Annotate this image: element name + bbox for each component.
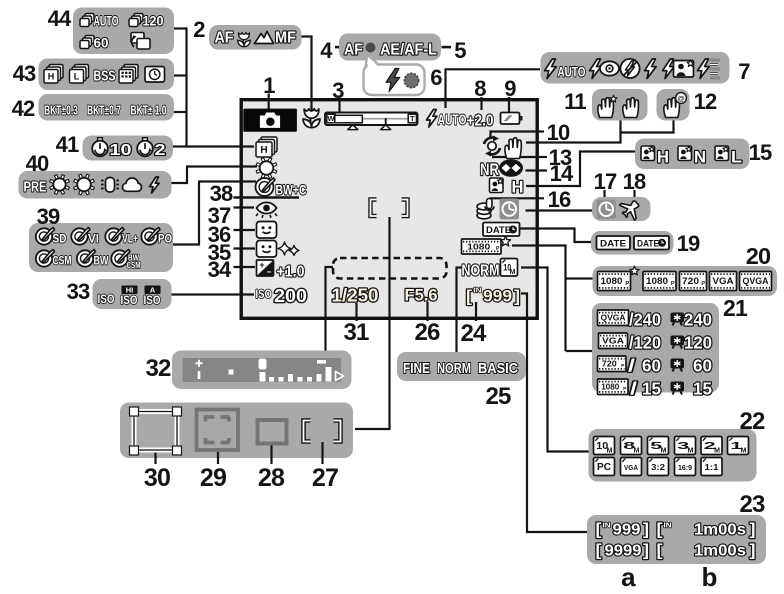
bubble 15 adl levels [635,139,750,170]
svg-text:H: H [260,145,267,156]
svg-text:AE/AF-L: AE/AF-L [380,42,437,59]
icon 7 slow sync [663,59,694,79]
icon 20 1080s [598,266,640,290]
icon 32 minus [317,360,326,364]
svg-text:IN: IN [603,521,611,530]
blink proof indicator [257,222,277,239]
img quality indicator [462,263,500,280]
svg-text:720: 720 [602,360,618,369]
svg-text:QVGA: QVGA [743,276,769,286]
voice memo indicator [477,199,494,219]
svg-text:]: ] [514,288,520,306]
smile timer indicator [257,241,300,258]
bubble 25 image quality [397,352,526,381]
label 24 [460,320,487,347]
mode box [243,109,297,132]
wire 11 [526,120,621,143]
label 17 [594,169,617,194]
svg-text:MF: MF [275,30,296,47]
icon 44 interval [131,33,150,50]
svg-text:1080: 1080 [601,276,623,286]
svg-text:[: [ [596,520,602,539]
svg-text:H: H [512,178,524,197]
svg-text:39: 39 [37,204,60,229]
svg-text:2: 2 [193,17,205,42]
icon 20 QVGA [740,272,772,291]
icon 43 multishot16 [119,65,138,84]
flash indicator [427,110,494,130]
svg-text:F5.6: F5.6 [405,286,438,305]
label 3 [332,78,344,103]
bubble 17-18 [592,197,651,221]
svg-text:L: L [731,148,742,167]
row 21 qvga240 [598,310,713,330]
svg-text:27: 27 [312,464,338,492]
wire 32 [326,267,334,351]
label 36 [208,222,231,247]
svg-text:BSS: BSS [94,69,116,85]
icon 20 720 [680,272,707,291]
icon 43 cont H [44,65,63,84]
svg-text:31: 31 [343,319,369,346]
svg-text:]: ] [750,541,756,560]
svg-text:ISO: ISO [121,293,138,307]
icon 43 BSS [94,69,116,85]
wire 17 [603,190,605,198]
svg-text:a: a [621,562,636,592]
stem 29 [217,450,219,464]
label 37 [208,203,231,228]
icon 15 N [678,146,706,167]
label 9 [504,76,516,101]
label 7 [738,59,750,84]
svg-text:11: 11 [564,89,586,114]
wire 33 [172,293,255,295]
icon 2 macro [238,33,250,47]
svg-text:720: 720 [682,276,699,286]
svg-text:BW+C: BW+C [276,182,307,198]
wire 9 [508,97,510,112]
bubble 39 picture controls [29,223,173,272]
svg-text:999: 999 [613,522,641,539]
icon 12 hand-auto [664,93,687,118]
svg-text:7: 7 [738,59,750,84]
picture ctrl indicator [256,178,307,198]
svg-text:]: ] [643,541,649,560]
svg-text:VGA: VGA [624,463,638,472]
label 11 [564,89,586,114]
svg-text:L: L [74,71,80,81]
svg-text:16:9: 16:9 [678,463,692,472]
label 32 [145,355,171,382]
icon 2 MF [275,30,296,47]
icon 7 fill [645,59,657,79]
icon 7 rear [698,59,721,79]
wire 39 [173,182,256,245]
svg-text:ISO: ISO [98,292,115,306]
svg-text:1/250: 1/250 [332,286,379,306]
svg-text:2: 2 [155,142,166,159]
movie option indicator [462,236,511,254]
wire 22 [521,268,589,452]
wire 12 [621,120,674,133]
exposure comp indicator [257,260,305,281]
icon 41 timer2 [137,138,165,159]
label 1 [263,73,275,98]
img size indicator [501,259,518,277]
label 20 [746,243,771,269]
svg-text:PO: PO [158,234,172,246]
label b [701,562,716,592]
label 22 [739,408,765,435]
svg-text:b: b [701,562,716,592]
svg-text:18: 18 [623,169,646,194]
svg-text:15: 15 [749,140,772,165]
svg-text:IN: IN [474,286,482,295]
svg-text:60: 60 [642,356,661,376]
svg-text:/: / [630,379,637,399]
icon 18 airplane [617,195,644,222]
icon 28 center frame [258,420,287,444]
icon 15 H [641,146,669,167]
text 42 bkt07 [87,103,121,118]
bubble 44 shooting menu frames [73,8,174,55]
icon 32 dot [229,370,234,375]
wire 34 [234,266,256,268]
wire 8 [480,97,482,110]
wire 20-21 [512,246,593,352]
row 23 a2 [596,541,650,560]
wire 13 [492,156,547,158]
wire 23 [521,294,587,533]
bubble 22 image sizes [589,429,757,482]
battery indicator [501,113,523,125]
bubble 12 motion detect [657,89,690,121]
svg-text:10: 10 [547,120,570,145]
svg-text:VGA: VGA [602,337,624,346]
svg-text:22: 22 [739,408,765,435]
icon 33 iso [98,292,115,306]
stem 27 [321,442,323,464]
svg-text:240: 240 [684,310,712,330]
vr hand indicator [505,138,521,159]
svg-text:SD: SD [53,234,67,246]
icon 40 shade sun [74,174,95,195]
icon 40 sun [50,175,70,195]
svg-text:16: 16 [548,187,571,212]
svg-text:29: 29 [200,464,226,492]
svg-text:PRE: PRE [24,180,47,196]
svg-text:BASIC: BASIC [478,361,518,377]
bubble 40 white balance [19,171,172,199]
svg-text:/: / [628,356,635,376]
svg-text:[: [ [466,288,473,306]
svg-text:20: 20 [746,243,771,269]
svg-text:1: 1 [263,73,275,98]
label 29 [200,464,226,492]
svg-text:+2.0: +2.0 [467,113,494,130]
icon 39 VL [105,228,138,246]
wire 1 [268,94,270,110]
camera monitor frame [241,100,537,319]
svg-text:26: 26 [414,319,440,346]
label 10 [547,120,570,145]
icon 40 cloud [123,178,142,191]
wire 15 [526,152,635,187]
svg-text:VI: VI [88,234,99,246]
svg-text:DATE: DATE [600,239,626,250]
wire 14 [526,169,548,171]
label 13 [549,145,572,170]
label 40 [26,151,49,176]
svg-text:AUTO: AUTO [438,112,467,129]
svg-text:−: − [267,268,272,277]
icon 20 VGA [710,272,737,291]
bubble 7 flash modes [541,52,730,84]
icon 40 wb flash [150,177,160,193]
svg-text:NORM: NORM [462,263,500,280]
bubble AE/AF-L [339,34,441,61]
svg-text:17: 17 [594,169,617,194]
svg-text:VL+: VL+ [122,234,138,246]
svg-text:P: P [625,281,629,287]
icon 20 1080 [643,272,676,291]
svg-text:M: M [607,447,613,454]
balloon 6 flash ready [364,55,425,95]
svg-text:AF: AF [344,42,363,59]
svg-text:24: 24 [460,320,487,347]
svg-text:6: 6 [430,65,442,90]
wire 38 [234,196,300,199]
svg-text:42: 42 [12,96,35,121]
svg-text:15: 15 [693,379,712,399]
aperture [405,286,438,305]
svg-text:3: 3 [332,78,344,103]
svg-text:1m00s: 1m00s [694,543,746,560]
icon 39 BWCSM [111,250,140,271]
icon 32 plusminus [196,360,203,379]
svg-text:P: P [496,246,500,252]
svg-text:+: + [259,260,264,270]
svg-text:4: 4 [320,38,333,63]
icon 32 bars [260,367,332,382]
svg-text:21: 21 [723,295,748,321]
panel 32 dark [183,358,342,382]
bubble framing marks [120,403,353,459]
svg-text:9999: 9999 [605,543,642,560]
bubble 11 vr hands [592,89,648,121]
svg-text:DATE: DATE [486,225,511,236]
wire 16 [491,198,545,203]
svg-text:BW: BW [94,256,109,268]
svg-text:M: M [634,447,640,454]
icon 33 a-iso [144,286,161,308]
wire 37 [234,206,255,208]
svg-text:15: 15 [642,379,661,399]
label 27 [312,464,338,492]
svg-text:41: 41 [56,132,79,157]
icon 43 intvl timer [145,67,165,83]
label 41 [56,132,79,157]
svg-text:999: 999 [483,288,512,306]
icon 32 arrow [336,372,344,381]
wire 2-macro [302,37,312,111]
svg-text:]: ] [643,520,649,539]
wire 36 [234,229,256,231]
label 34 [208,257,232,282]
svg-text:23: 23 [739,491,765,518]
wire dash 5 [442,46,452,49]
svg-text:DATE: DATE [637,239,659,249]
icon 32 marker [259,359,267,370]
icon 39 VI [71,228,99,246]
svg-text:NR: NR [480,161,499,179]
wire 3 [338,100,340,113]
row 22 sizes1 [594,437,749,455]
af area brackets [371,200,408,217]
icon 44 frame 120 [129,14,164,29]
timezone clock indicator [500,199,520,220]
wire 26 [426,302,428,321]
badge 19 DATE [597,236,631,250]
label 39 [37,204,60,229]
svg-text:T: T [410,114,415,123]
svg-text:28: 28 [258,464,285,492]
svg-text:/120: /120 [629,333,661,353]
svg-text:@: @ [677,94,684,103]
label 16 [548,187,571,212]
label 15 [749,140,772,165]
svg-text:30: 30 [144,464,170,492]
label 28 [258,464,285,492]
icon 44 frame 60 [80,36,109,51]
zoom bar [325,113,418,130]
svg-text:M: M [714,447,720,454]
label 30 [144,464,170,492]
wire 25 [457,268,463,353]
badge 19 DATE+ [634,236,669,250]
icon 40 incandescent [101,178,119,193]
svg-text:M: M [510,269,516,276]
icon 39 SD [36,228,67,246]
redeye indicator [256,202,277,217]
icon 39 BW [77,250,109,268]
svg-text:8: 8 [474,76,486,101]
icon 30 crop frame [130,407,182,455]
svg-text:33: 33 [67,279,90,304]
row 23 b1 [657,520,756,539]
svg-text:/240: /240 [629,310,661,330]
label 25 [485,383,511,410]
svg-text:BKT± 1.0: BKT± 1.0 [131,103,167,118]
row 21 720-60 [598,356,713,376]
text AE/AF-L [380,42,437,59]
svg-text:P: P [671,281,675,287]
adl indicator [490,178,524,197]
stem 28 [270,444,272,464]
icon 27 af brackets [304,421,341,442]
wire 31 [355,303,357,321]
wire dash 4 [335,46,344,49]
svg-text:40: 40 [26,151,49,176]
svg-text:1:1: 1:1 [705,462,719,472]
label 4 [320,38,333,63]
date imprint indicator [483,223,520,237]
icon 17 timer clock [597,200,617,220]
svg-text:H: H [48,71,55,81]
macro icon [303,109,320,128]
svg-text:M: M [741,447,747,454]
bubble 42 bracketing [39,94,175,121]
svg-text:34: 34 [208,257,232,282]
svg-text:N: N [694,148,706,167]
svg-text:+1.0: +1.0 [277,264,305,281]
label 43 [13,61,36,86]
label 12 [694,89,717,114]
bubble 32 exposure scale [172,351,352,390]
svg-text:H: H [657,148,669,167]
wire 27-AF [355,217,390,429]
svg-text:P: P [701,281,705,287]
label 33 [67,279,90,304]
text 42 bkt10 [131,103,167,118]
wire 35 [234,247,256,249]
row 21 vga120 [599,333,713,353]
motion detect indicator [484,136,500,157]
icon 11 hand1 [598,95,617,117]
label 14 [550,161,574,186]
icon 40 PRE [24,180,47,196]
wire 24 [475,302,477,321]
svg-text:VGA: VGA [713,276,735,286]
svg-text:AF: AF [215,30,234,47]
bubble 23 exposures [587,515,766,564]
label a [621,562,636,592]
icon 7 redeye [590,59,620,79]
wire 7-flash [446,69,541,108]
label 19 [677,231,700,256]
svg-text:5: 5 [454,38,466,63]
svg-text:]: ] [750,520,756,539]
icon 7 off [620,59,639,78]
svg-text:AUTO: AUTO [94,14,119,29]
wb sun indicator [256,158,277,179]
svg-text:AUTO: AUTO [558,64,586,80]
icon 41 timer10 [92,138,131,159]
icon 15 L [715,146,742,167]
svg-text:ISO: ISO [256,287,273,301]
label 23 [739,491,765,518]
label 8 [474,76,486,101]
row 22 sizes2 [594,458,723,476]
row 23 a1 [596,520,650,539]
svg-text:ISO: ISO [144,293,161,307]
label 44 [48,6,72,31]
svg-text:10: 10 [110,142,132,159]
svg-text:1080: 1080 [646,276,668,286]
svg-text:9: 9 [504,76,516,101]
row 23 b2 [657,541,756,560]
svg-text:CSM: CSM [127,261,141,270]
svg-text:200: 200 [274,285,307,306]
frames left indicator [466,286,520,306]
svg-text:32: 32 [145,355,171,382]
svg-text:43: 43 [13,61,36,86]
svg-text:3:2: 3:2 [651,462,665,472]
icon 44 frame AUTO [80,14,119,29]
label 5 [454,38,466,63]
shutter speed [332,286,379,306]
